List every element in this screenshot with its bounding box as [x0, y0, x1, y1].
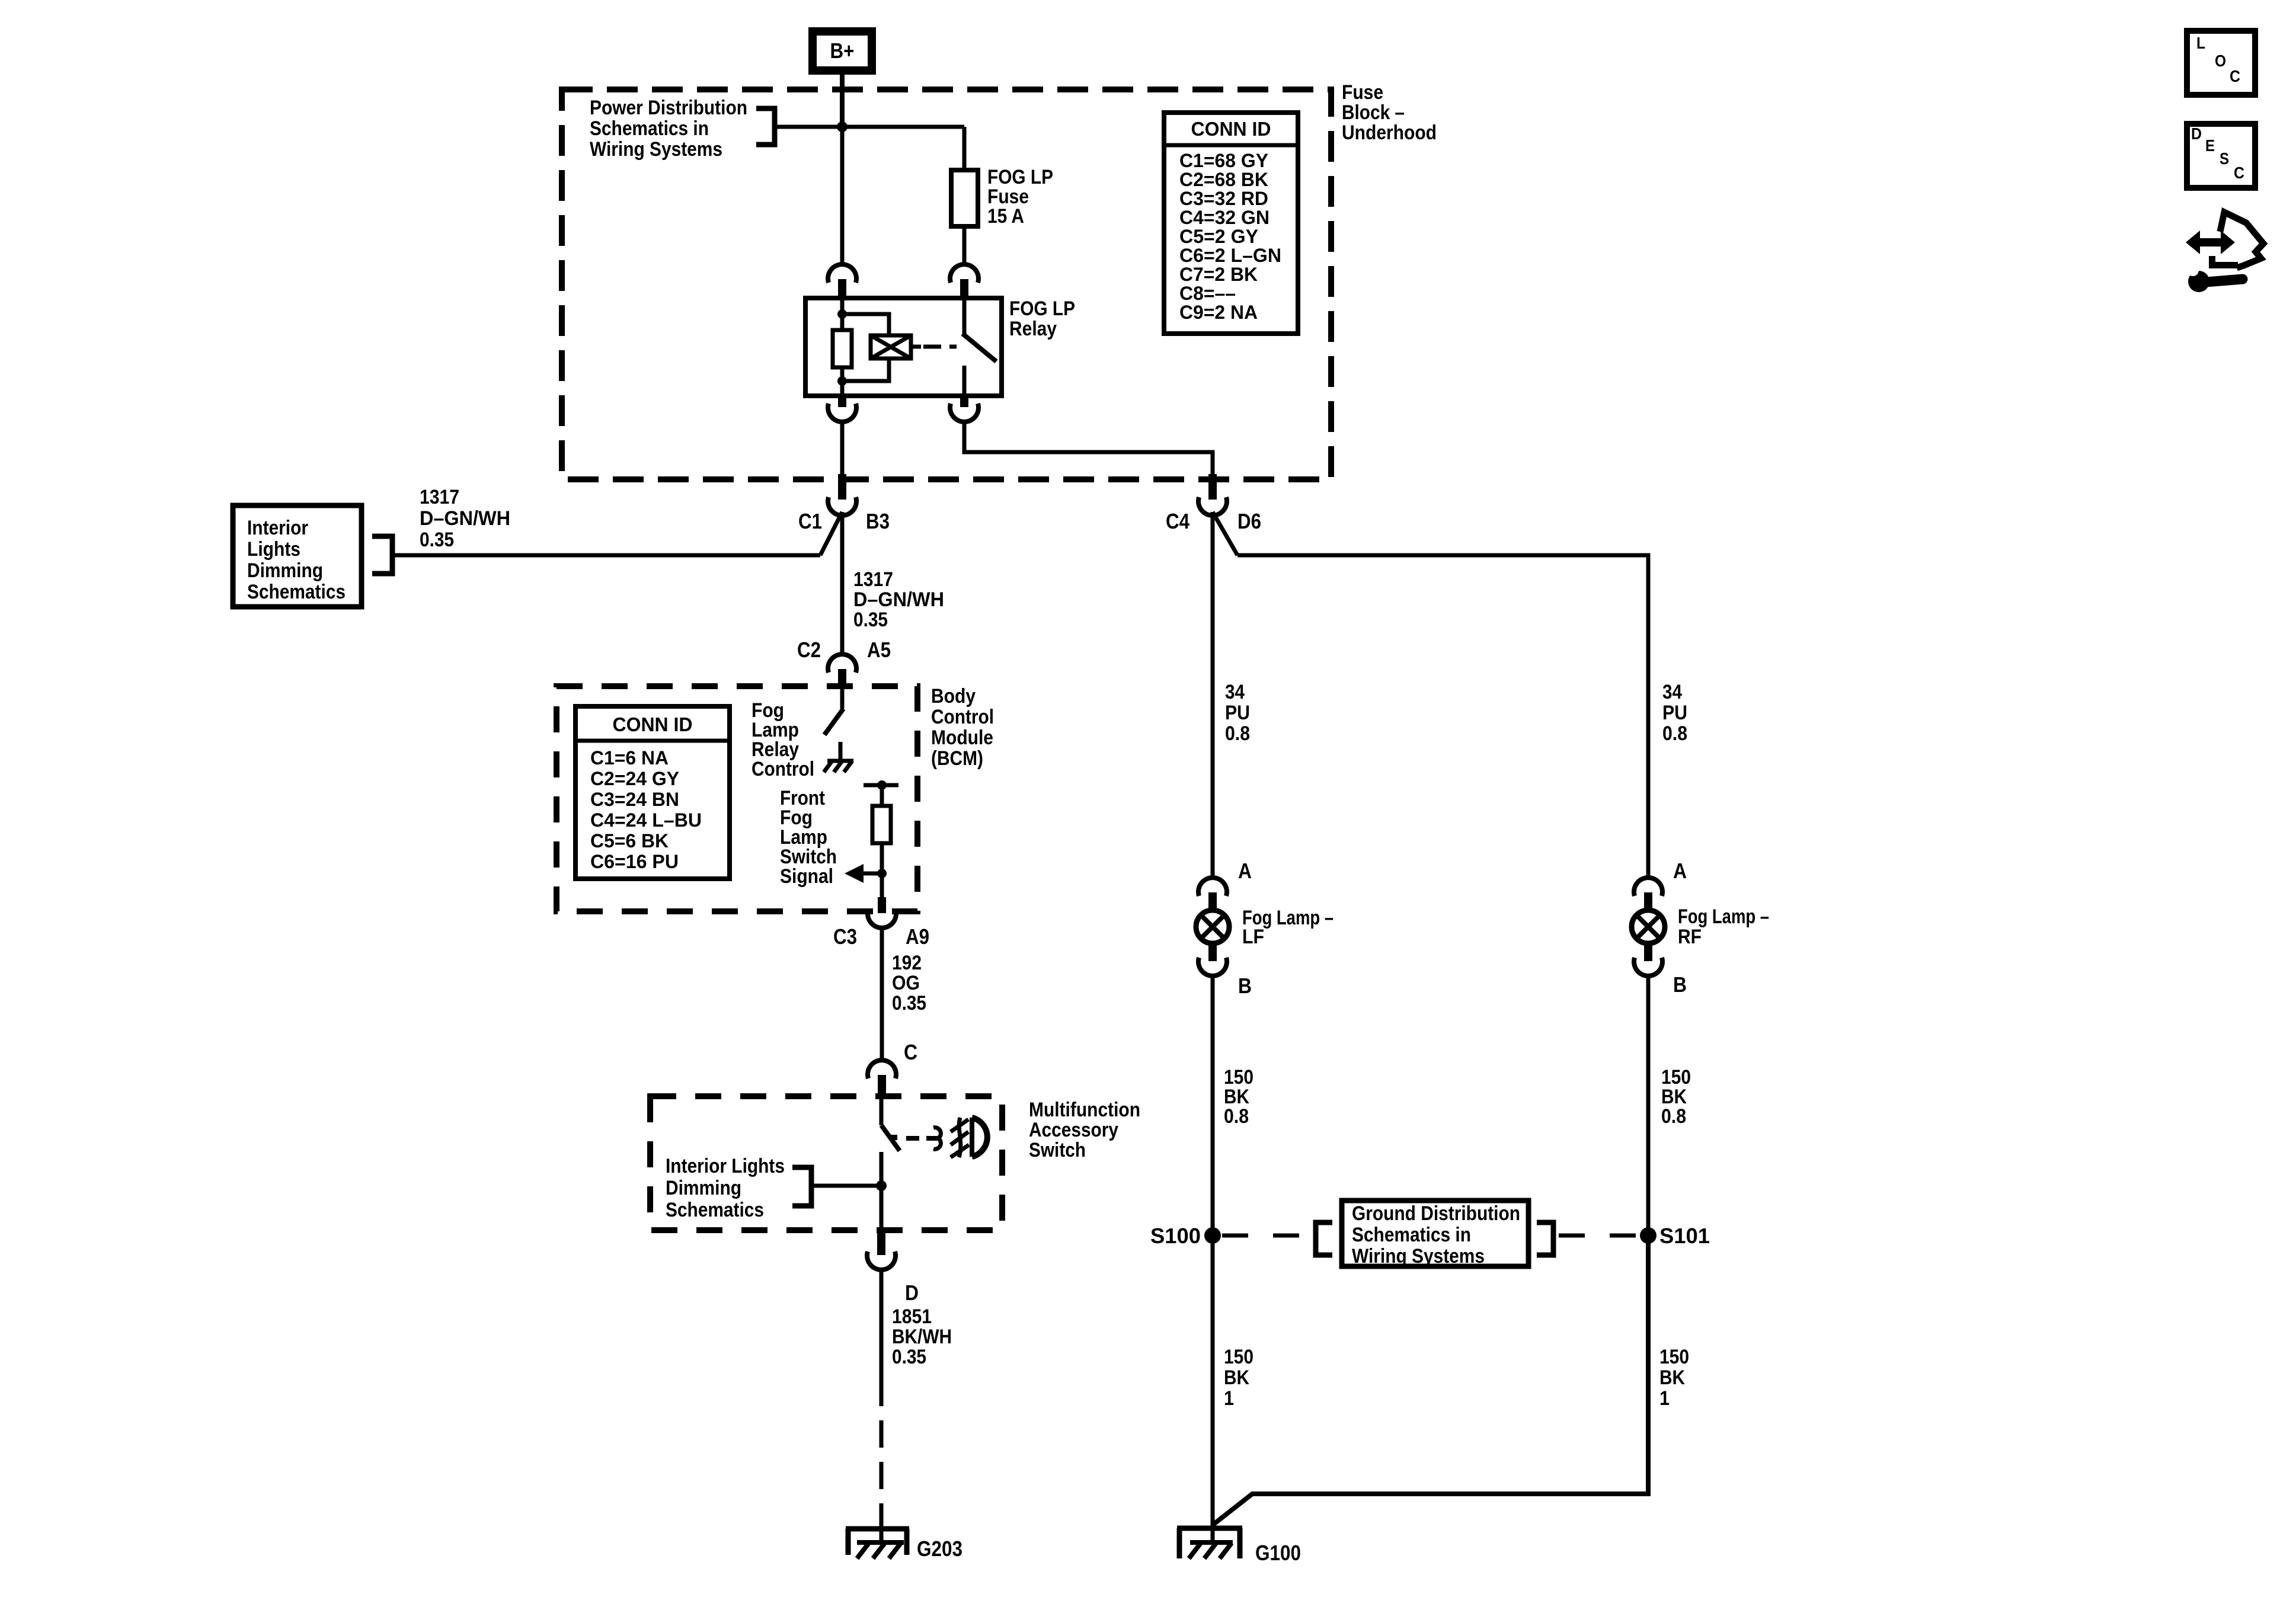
relay coil return wire	[842, 359, 889, 381]
svg-text:Control: Control	[752, 758, 814, 780]
connector C4 D6	[1198, 497, 1227, 516]
svg-text:Body: Body	[931, 685, 976, 708]
fuse FOG LP 15 A	[951, 170, 978, 226]
wire S101 to G100	[1214, 1235, 1648, 1524]
wire C1 to C2	[840, 512, 845, 654]
svg-text:0.8: 0.8	[1225, 722, 1250, 745]
svg-text:Fog Lamp –: Fog Lamp –	[1678, 905, 1769, 928]
multifunction accessory switch dashed boundary	[650, 1096, 1002, 1230]
wire relay out to C1	[840, 422, 845, 498]
icon DESC box	[2187, 124, 2255, 188]
svg-text:C3: C3	[833, 924, 857, 949]
fuse FOG LP 15A wire upper	[962, 127, 967, 170]
BCM pullup resistor wire upper	[880, 785, 884, 806]
svg-text:Module: Module	[931, 726, 993, 749]
connector A left	[1198, 878, 1227, 896]
svg-text:Schematics in: Schematics in	[1352, 1224, 1471, 1246]
svg-text:1851: 1851	[892, 1305, 932, 1328]
svg-text:PU: PU	[1662, 702, 1687, 724]
wire fuse to relay connector	[962, 226, 967, 265]
BCM signal arrow	[845, 864, 864, 883]
BCM pullup resistor wire lower	[880, 843, 884, 901]
BCM internal ground stub	[839, 742, 843, 760]
svg-text:C2=68 BK: C2=68 BK	[1179, 169, 1268, 190]
svg-text:0.8: 0.8	[1662, 722, 1687, 745]
svg-text:C2=24 GY: C2=24 GY	[590, 768, 679, 789]
relay junction dot upper	[837, 309, 847, 319]
svg-text:Underhood: Underhood	[1342, 121, 1437, 144]
connector B right	[1644, 943, 1652, 961]
svg-text:Wiring Systems: Wiring Systems	[1352, 1245, 1485, 1267]
svg-text:C1=6 NA: C1=6 NA	[590, 747, 669, 769]
svg-text:A: A	[1238, 859, 1252, 883]
svg-text:C5=2 GY: C5=2 GY	[1179, 226, 1258, 247]
wire bus to fuse branch	[775, 125, 964, 129]
svg-text:34: 34	[1225, 681, 1245, 703]
connector relay pin 87 top-right	[950, 264, 978, 283]
svg-text:S100: S100	[1150, 1224, 1201, 1248]
svg-text:Accessory: Accessory	[1029, 1119, 1118, 1141]
svg-text:C6=16 PU: C6=16 PU	[590, 851, 679, 872]
ground G203	[846, 1526, 909, 1532]
svg-text:150: 150	[1659, 1346, 1689, 1368]
svg-text:CONN ID: CONN ID	[1191, 118, 1271, 140]
svg-text:C1=68 GY: C1=68 GY	[1179, 150, 1268, 171]
svg-text:0.35: 0.35	[853, 609, 888, 631]
svg-text:BK: BK	[1659, 1366, 1685, 1389]
connector relay bottom-left	[838, 396, 846, 407]
stub C4 at fuse block boundary	[1208, 474, 1217, 500]
svg-text:150: 150	[1224, 1346, 1253, 1368]
svg-text:PU: PU	[1225, 702, 1250, 724]
svg-text:Interior Lights: Interior Lights	[666, 1155, 785, 1177]
svg-text:0.35: 0.35	[420, 529, 454, 551]
fuse block underhood dashed boundary	[562, 89, 1331, 479]
svg-text:Power Distribution: Power Distribution	[590, 97, 747, 119]
svg-text:BK: BK	[1224, 1366, 1249, 1389]
relay FOG LP box	[805, 298, 1002, 396]
junction dot multifunction	[876, 1180, 887, 1191]
svg-text:B: B	[1673, 972, 1687, 997]
svg-text:Lights: Lights	[247, 538, 300, 561]
BCM signal crossbar	[864, 783, 898, 788]
svg-text:Multifunction: Multifunction	[1029, 1099, 1140, 1121]
relay resistor lower wire	[840, 367, 845, 395]
svg-text:Schematics in: Schematics in	[590, 117, 709, 140]
multifunction switch link spring	[933, 1128, 941, 1150]
relay coil branch wire	[842, 314, 889, 335]
svg-text:1317: 1317	[420, 486, 459, 508]
svg-text:0.8: 0.8	[1661, 1105, 1686, 1128]
dashed link S100 to ground distribution	[1222, 1234, 1311, 1238]
relay switch lower contact	[962, 366, 967, 395]
svg-text:Signal: Signal	[780, 865, 833, 888]
wire relay 87 to C4 exit	[964, 422, 1213, 498]
connector C2 A5	[828, 654, 856, 673]
BCM relay control switch wire	[840, 689, 845, 709]
svg-text:C5=6 BK: C5=6 BK	[590, 830, 669, 852]
wire C3 to multifunction switch	[880, 929, 884, 1060]
svg-text:G100: G100	[1255, 1541, 1301, 1565]
relay switch upper contact	[962, 299, 967, 335]
multifunction switch linkage dashes	[906, 1136, 940, 1141]
multifunction switch wire	[880, 1099, 884, 1125]
wire to right fog lamp branch	[1237, 555, 1648, 877]
svg-text:BK/WH: BK/WH	[892, 1326, 952, 1348]
icon wrench	[2188, 271, 2209, 292]
CONN ID table fuse block	[1164, 113, 1298, 334]
wire diagonal C4 tap	[1213, 512, 1237, 555]
connector B left	[1208, 943, 1217, 961]
svg-text:OG: OG	[892, 972, 920, 994]
wire S100 to G100	[1211, 1235, 1215, 1526]
svg-text:1: 1	[1224, 1387, 1234, 1410]
svg-text:Wiring Systems: Wiring Systems	[590, 138, 722, 161]
wire B left to S100	[1211, 977, 1215, 1235]
bracket interior lights	[372, 536, 392, 574]
connector C3 A9	[878, 897, 886, 913]
svg-text:Schematics: Schematics	[666, 1199, 764, 1221]
icon jump arrows	[2186, 231, 2235, 254]
wire D solid segment	[880, 1270, 884, 1379]
svg-text:D–GN/WH: D–GN/WH	[853, 588, 944, 611]
svg-text:B3: B3	[866, 509, 890, 533]
svg-text:C8=––: C8=––	[1179, 283, 1236, 304]
relay resistor	[833, 330, 852, 367]
connector D multifunction	[877, 1231, 885, 1255]
svg-text:S101: S101	[1659, 1224, 1710, 1248]
svg-text:C4=24 L–BU: C4=24 L–BU	[590, 809, 702, 831]
svg-text:A: A	[1673, 859, 1687, 883]
svg-text:Dimming: Dimming	[247, 559, 323, 582]
svg-text:A5: A5	[867, 638, 891, 662]
svg-text:0.35: 0.35	[892, 992, 926, 1014]
fog lamp RF bulb	[1632, 910, 1665, 943]
svg-text:Relay: Relay	[1009, 318, 1057, 340]
svg-text:G203: G203	[917, 1537, 962, 1561]
splice S101	[1640, 1227, 1657, 1244]
fog lamp icon rays	[951, 1119, 968, 1132]
svg-text:Block –: Block –	[1342, 101, 1405, 124]
svg-text:C: C	[2234, 164, 2244, 182]
splice S100	[1204, 1227, 1221, 1244]
svg-text:L: L	[2196, 34, 2205, 52]
svg-text:C3=32 RD: C3=32 RD	[1179, 188, 1268, 209]
svg-text:C1: C1	[798, 509, 822, 533]
svg-text:D: D	[905, 1281, 919, 1305]
svg-text:B+: B+	[830, 39, 855, 63]
svg-text:Control: Control	[931, 706, 994, 728]
ground distribution schematics box	[1342, 1201, 1528, 1266]
BCM internal ground symbol	[827, 759, 853, 763]
multifunction switch blade	[881, 1125, 900, 1151]
relay coil X	[871, 335, 911, 359]
bracket to Power Distribution	[756, 108, 775, 145]
svg-text:Switch: Switch	[1029, 1139, 1086, 1161]
wire interior lights lower tap	[811, 1184, 881, 1188]
wire B+ to junction	[840, 75, 845, 127]
svg-text:C: C	[904, 1040, 917, 1064]
wire interior lights tap	[392, 553, 820, 558]
svg-text:S: S	[2220, 149, 2229, 168]
svg-text:34: 34	[1662, 681, 1682, 703]
svg-text:LF: LF	[1242, 926, 1264, 948]
svg-text:B: B	[1238, 974, 1252, 998]
relay junction dot lower	[837, 376, 847, 386]
multifunction switch lower contact wire	[880, 1152, 884, 1231]
svg-text:A9: A9	[906, 924, 929, 949]
multifunction switch blade tab	[890, 1135, 897, 1140]
svg-text:0.8: 0.8	[1224, 1105, 1249, 1128]
fog lamp icon lens	[972, 1118, 987, 1157]
svg-text:D6: D6	[1237, 509, 1261, 533]
relay switch blade	[962, 334, 996, 361]
bracket ground distribution right	[1537, 1222, 1553, 1255]
BCM pullup resistor	[872, 806, 891, 843]
wire B right to S101	[1646, 977, 1651, 1235]
connector A right	[1634, 878, 1662, 896]
bracket interior lights lower	[792, 1167, 811, 1206]
svg-text:E: E	[2205, 136, 2215, 155]
svg-text:Interior: Interior	[247, 517, 308, 539]
relay coil actuator stub	[911, 345, 921, 349]
svg-text:C4=32 GN: C4=32 GN	[1179, 207, 1269, 228]
svg-text:1: 1	[1659, 1387, 1670, 1410]
wire D dashed segment to G203	[880, 1379, 884, 1528]
svg-text:Fuse: Fuse	[1342, 81, 1383, 104]
svg-text:C9=2 NA: C9=2 NA	[1179, 302, 1258, 323]
wire main vertical to relay	[840, 127, 845, 265]
battery feed terminal B+	[813, 31, 872, 71]
BCM signal junction upper	[877, 780, 887, 790]
fog lamp LF bulb	[1196, 910, 1229, 943]
relay actuator dashed link	[923, 345, 957, 349]
svg-text:FOG LP: FOG LP	[1009, 297, 1075, 320]
svg-text:C: C	[2230, 67, 2240, 85]
svg-text:O: O	[2215, 52, 2226, 70]
connector C multifunction	[868, 1060, 896, 1078]
BCM relay control switch blade	[824, 709, 843, 735]
connector relay pin 30 top-left	[828, 264, 856, 283]
svg-text:C7=2 BK: C7=2 BK	[1179, 264, 1258, 285]
svg-text:C6=2 L–GN: C6=2 L–GN	[1179, 245, 1281, 266]
svg-text:RF: RF	[1678, 926, 1702, 948]
svg-text:(BCM): (BCM)	[931, 747, 983, 770]
svg-text:CONN ID: CONN ID	[613, 713, 693, 735]
svg-text:D–GN/WH: D–GN/WH	[420, 507, 510, 530]
junction dot at B+ bus	[837, 121, 848, 132]
svg-text:C3=24 BN: C3=24 BN	[590, 789, 679, 810]
fog lamp icon fog line	[959, 1118, 961, 1157]
svg-text:Ground Distribution: Ground Distribution	[1352, 1202, 1520, 1225]
svg-text:Schematics: Schematics	[247, 581, 346, 603]
svg-text:C4: C4	[1166, 509, 1189, 533]
stub C1 at fuse block boundary	[838, 474, 846, 500]
svg-text:1317: 1317	[853, 568, 893, 591]
relay coil feed wire	[840, 299, 845, 330]
dashed link ground distribution to S101	[1559, 1234, 1638, 1238]
interior lights dimming schematics box	[233, 505, 362, 607]
wire to left fog lamp branch	[1211, 512, 1215, 877]
svg-text:192: 192	[892, 952, 922, 974]
svg-text:C2: C2	[797, 638, 821, 662]
CONN ID table BCM	[575, 706, 730, 879]
bracket ground distribution left	[1316, 1222, 1332, 1255]
svg-text:0.35: 0.35	[892, 1346, 926, 1368]
wire diagonal C1 tap	[820, 512, 842, 555]
svg-text:15 A: 15 A	[987, 205, 1024, 228]
svg-text:D: D	[2191, 124, 2202, 143]
body control module dashed boundary	[557, 686, 917, 911]
ground G100	[1177, 1526, 1242, 1531]
svg-text:Dimming: Dimming	[666, 1177, 741, 1199]
connector C1 B3	[828, 497, 856, 516]
BCM signal junction lower	[877, 869, 887, 878]
relay coil box	[871, 335, 911, 359]
connector relay bottom-right	[960, 396, 968, 407]
icon LOC box	[2187, 31, 2255, 95]
